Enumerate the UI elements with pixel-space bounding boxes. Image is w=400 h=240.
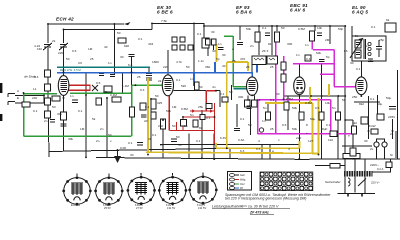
antenna jack upper — [8, 94, 44, 98]
svg-text:30: 30 — [276, 92, 280, 96]
svg-text:0.5: 0.5 — [96, 81, 101, 85]
wire yellow vert tube2 — [147, 78, 149, 152]
svg-text:240: 240 — [32, 96, 37, 100]
node J32 — [298, 158, 300, 160]
svg-text:Netzschalter: Netzschalter — [325, 180, 342, 184]
svg-text:0.1: 0.1 — [270, 98, 275, 102]
wire tube3 cathode down — [248, 96, 255, 136]
capacitor C19 — [61, 124, 67, 126]
svg-text:6.8: 6.8 — [128, 63, 133, 67]
wire contact leads — [208, 45, 284, 96]
resistor R39 — [305, 55, 311, 61]
svg-text:6 AQ 5: 6 AQ 5 — [352, 10, 368, 15]
wire vertical x163 — [162, 120, 164, 158]
svg-text:1n: 1n — [70, 94, 74, 98]
wire lamp leads — [377, 139, 385, 159]
svg-text:10k: 10k — [325, 101, 330, 105]
wire mains verticals — [338, 159, 376, 194]
svg-text:25: 25 — [160, 143, 164, 147]
resistor R10 — [255, 32, 260, 42]
node J8 — [193, 22, 195, 24]
node J7 — [151, 22, 153, 24]
jack circle — [259, 128, 263, 132]
wire vertical x396 — [395, 131, 397, 158]
svg-text:T: T — [348, 134, 350, 138]
svg-text:50: 50 — [108, 133, 112, 137]
node J12 — [276, 25, 278, 27]
svg-text:Geh: Geh — [240, 173, 245, 177]
svg-text:30k: 30k — [68, 137, 73, 141]
wire vertical x277 — [276, 26, 278, 31]
svg-text:1k2: 1k2 — [352, 121, 357, 125]
node J17 — [43, 95, 45, 97]
wire tube1 cathode down — [63, 95, 65, 151]
svg-text:5k: 5k — [355, 34, 359, 38]
svg-text:50: 50 — [117, 31, 121, 35]
node J26 — [201, 157, 203, 159]
svg-text:5n: 5n — [263, 106, 267, 110]
resistor R23 — [385, 23, 396, 32]
capacitor C16 — [146, 78, 152, 80]
wire cap leads — [148, 68, 150, 74]
wire power x368.5 — [368, 96, 370, 139]
svg-text:1.1n: 1.1n — [198, 59, 204, 63]
svg-text:0.1: 0.1 — [356, 67, 361, 71]
wire magenta vert d — [275, 100, 277, 134]
svg-text:30: 30 — [130, 153, 134, 157]
socket V1 — [62, 176, 91, 205]
resistor R41 — [140, 103, 146, 110]
wire tube5 anode up — [360, 61, 362, 77]
resistor R24 — [181, 120, 187, 127]
svg-text:30: 30 — [120, 55, 124, 59]
svg-text:1n: 1n — [305, 43, 309, 47]
svg-text:6k8: 6k8 — [124, 44, 129, 48]
node arrowhead rail1 — [124, 22, 131, 25]
resistor R25 — [193, 120, 198, 127]
svg-text:1k: 1k — [257, 98, 261, 102]
node J6 — [131, 71, 133, 73]
svg-text:0.1: 0.1 — [206, 116, 211, 120]
node J36 — [344, 95, 346, 97]
wire green tube1 stub — [24, 92, 132, 94]
svg-text:50p: 50p — [338, 27, 343, 31]
wire magenta horiz y131 — [258, 133, 353, 135]
svg-text:60: 60 — [199, 85, 203, 89]
svg-text:25: 25 — [232, 59, 236, 63]
resistor R38 — [330, 131, 337, 137]
resistor R7 — [151, 112, 156, 119]
wire tube4 anode up — [298, 64, 300, 78]
svg-text:131 5V: 131 5V — [198, 206, 206, 210]
capacitor C24 — [54, 65, 59, 67]
wire magenta horiz y104 — [258, 99, 331, 101]
wire magenta vert f — [333, 64, 335, 87]
wire yellow vert x329 — [328, 84, 330, 96]
resistor R17 — [284, 102, 289, 110]
wire vertical x321.7 — [321, 96, 323, 159]
wire red vert x206 — [205, 91, 207, 111]
svg-text:1M: 1M — [88, 47, 93, 51]
svg-text:30k: 30k — [103, 90, 108, 94]
node J3 — [63, 46, 65, 48]
capacitor C20 — [234, 129, 240, 131]
node J21 — [134, 84, 136, 86]
svg-text:Wdg: Wdg — [240, 178, 246, 182]
edge mark left lower — [0, 114, 2, 121]
wire vertical right x345 — [344, 26, 346, 159]
node J29 — [226, 147, 228, 149]
svg-text:ECH 42: ECH 42 — [56, 17, 74, 22]
wire yellow top horiz — [227, 61, 248, 63]
capacitor C5 — [265, 33, 270, 36]
svg-text:0.3A: 0.3A — [238, 138, 245, 142]
tube U3 — [247, 77, 258, 96]
node J25 — [182, 116, 184, 118]
svg-text:220: 220 — [58, 51, 63, 55]
node J14 — [329, 25, 331, 27]
wire vertical x272 — [271, 26, 273, 55]
svg-text:1n: 1n — [108, 61, 112, 65]
svg-text:5k: 5k — [92, 117, 96, 121]
wire vertical x237 — [236, 104, 238, 127]
capacitor C3 — [50, 120, 55, 123]
capacitor C25 — [141, 115, 147, 117]
svg-text:50: 50 — [52, 105, 56, 109]
wire tube1 anode up — [63, 48, 65, 75]
svg-text:5n: 5n — [332, 106, 336, 110]
capacitor C17 — [237, 43, 243, 45]
svg-text:131 5V: 131 5V — [167, 206, 175, 210]
resistor R32 — [266, 112, 271, 120]
resistor R13 — [202, 38, 209, 48]
svg-text:8µF: 8µF — [322, 127, 328, 131]
antenna jack lower — [8, 96, 44, 105]
coil L1 — [45, 70, 51, 77]
resistor R3 — [52, 96, 60, 101]
svg-text:50: 50 — [186, 65, 190, 69]
trimmer cross mark — [92, 85, 98, 91]
net teal — [57, 66, 150, 68]
svg-text:50µ: 50µ — [386, 96, 391, 100]
wire yellow heater vert a — [299, 141, 301, 148]
ground arrow — [114, 156, 121, 163]
svg-text:8k: 8k — [268, 42, 272, 46]
svg-text:0.5: 0.5 — [282, 123, 287, 127]
svg-text:40: 40 — [212, 49, 216, 53]
net yellow — [146, 44, 329, 153]
resistor R34 — [330, 164, 340, 169]
svg-text:Osz: Osz — [240, 182, 245, 186]
wire magenta tube5 grid — [334, 86, 356, 88]
svg-text:0.05: 0.05 — [120, 146, 126, 150]
node J34 — [321, 95, 323, 97]
svg-text:1n: 1n — [296, 53, 300, 57]
wire tube2 anode up — [167, 50, 169, 75]
svg-text:50µ: 50µ — [377, 102, 382, 106]
wire green stub top — [224, 35, 233, 37]
svg-text:1n: 1n — [262, 119, 266, 123]
wire vertical x262b — [230, 144, 270, 159]
wire red tube2 down — [168, 96, 170, 131]
svg-text:+: + — [306, 131, 308, 135]
svg-text:ECH 42: ECH 42 — [71, 203, 81, 207]
svg-text:0.1: 0.1 — [196, 139, 201, 143]
svg-text:0.1: 0.1 — [220, 92, 225, 96]
wire cathode bus right — [283, 95, 345, 97]
trimmer capacitor C1 — [43, 43, 52, 50]
svg-text:Si: Si — [390, 153, 393, 157]
tube U5 — [356, 77, 367, 95]
svg-text:1.1M: 1.1M — [122, 84, 129, 88]
svg-text:27 5V: 27 5V — [136, 206, 143, 210]
wire yellow vert x310 — [309, 87, 311, 103]
wire red vert x214 — [214, 103, 216, 144]
svg-text:127: 127 — [308, 139, 313, 143]
IF can windings — [254, 58, 275, 60]
contact block K1 — [206, 39, 211, 45]
wire vertical x204 — [203, 23, 205, 40]
wire blue riser — [252, 64, 257, 78]
wire yellow vert right — [318, 98, 320, 153]
node J20 — [106, 97, 108, 99]
rectifier box — [386, 162, 392, 168]
wire yellow stub x216 — [216, 44, 218, 62]
svg-text:50k: 50k — [246, 27, 251, 31]
svg-text:ca. 30 W bei 220 V: ca. 30 W bei 220 V — [248, 205, 279, 209]
svg-text:8k2: 8k2 — [359, 102, 364, 106]
wire vertical x131.5 — [131, 57, 133, 85]
wire magenta vert g — [311, 32, 313, 50]
svg-text:0.1: 0.1 — [33, 109, 38, 113]
svg-text:2k: 2k — [52, 39, 56, 43]
wire vertical right edge — [397, 70, 399, 160]
svg-text:0.1: 0.1 — [145, 105, 150, 109]
wire green junction2 — [130, 92, 132, 94]
switch contact — [358, 179, 366, 187]
svg-text:25: 25 — [270, 65, 274, 69]
resistor R19 — [319, 112, 324, 120]
node J33 — [310, 95, 312, 97]
wire yellow vert x312 — [312, 103, 314, 153]
node J43 — [117, 149, 119, 151]
wire vertical x114 — [113, 24, 115, 74]
dial lamp LP2 — [382, 142, 387, 147]
node J11 — [271, 25, 273, 27]
svg-text:ZF 473 kHz: ZF 473 kHz — [249, 211, 269, 215]
wire teal agc line — [57, 66, 150, 68]
resistor R40 — [96, 98, 102, 105]
svg-text:300: 300 — [238, 95, 243, 99]
svg-text:4n: 4n — [212, 85, 216, 89]
wire vertical x151 — [150, 99, 152, 152]
wire power y120 — [345, 119, 353, 121]
wire teal tube3 stub — [234, 88, 247, 90]
wire vertical x268 — [267, 104, 269, 112]
svg-text:470: 470 — [240, 57, 245, 61]
svg-text:6k: 6k — [386, 18, 390, 22]
wire power x353 — [352, 120, 354, 159]
wire red y117 — [183, 116, 215, 118]
legend box — [228, 172, 252, 191]
coil L2 — [45, 84, 51, 91]
svg-text:0.1: 0.1 — [370, 97, 375, 101]
wire top rail 1 — [48, 23, 124, 25]
node J16 — [23, 92, 25, 94]
wire vertical x122 — [122, 72, 124, 93]
wire red y130 — [169, 130, 214, 132]
svg-text:65: 65 — [247, 98, 251, 102]
svg-text:1n: 1n — [218, 42, 222, 46]
wire y146 bus — [342, 145, 372, 147]
svg-text:0.1: 0.1 — [262, 26, 267, 30]
resistor R36 — [361, 117, 368, 124]
svg-text:4.7k: 4.7k — [176, 60, 182, 64]
svg-text:8: 8 — [306, 123, 308, 127]
svg-text:10k: 10k — [317, 26, 322, 30]
resistor R14 — [245, 100, 251, 107]
svg-text:40: 40 — [222, 64, 226, 68]
svg-text:0.3: 0.3 — [306, 57, 311, 61]
node J22 — [150, 98, 152, 100]
svg-text:300: 300 — [287, 42, 292, 46]
node J15 — [344, 25, 346, 27]
svg-text:50: 50 — [66, 57, 70, 61]
resistor R8 — [161, 119, 166, 129]
wire yellow top stub — [247, 62, 249, 71]
svg-text:2n: 2n — [250, 44, 254, 48]
svg-text:a: a — [272, 149, 274, 153]
switch S1b — [180, 37, 185, 42]
svg-text:4: 4 — [288, 147, 290, 151]
socket V4 — [158, 176, 187, 205]
svg-text:6 BA 6: 6 BA 6 — [236, 10, 252, 15]
svg-text:250: 250 — [158, 124, 163, 128]
node J40 — [368, 130, 370, 132]
svg-text:4: 4 — [258, 139, 260, 143]
svg-text:110: 110 — [328, 138, 333, 142]
svg-text:0.1M: 0.1M — [110, 93, 117, 97]
svg-text:L7: L7 — [366, 44, 370, 48]
node J10 — [258, 25, 260, 27]
svg-text:2M: 2M — [325, 38, 330, 42]
svg-text:50: 50 — [342, 98, 346, 102]
svg-text:25: 25 — [137, 75, 141, 79]
svg-text:5p: 5p — [216, 57, 220, 61]
svg-text:1800: 1800 — [152, 60, 159, 64]
node J13 — [314, 25, 316, 27]
capacitor C11 — [129, 55, 135, 57]
svg-text:5n: 5n — [190, 113, 194, 117]
svg-text:0.1: 0.1 — [176, 78, 181, 82]
node J27 — [213, 158, 215, 160]
svg-text:0.1: 0.1 — [371, 25, 376, 29]
wire vertical x330 — [329, 26, 331, 44]
wire blue jog — [214, 62, 216, 72]
coil tuning arrow — [350, 38, 363, 58]
svg-text:L1: L1 — [33, 87, 37, 91]
wire vertical x188.9 — [188, 134, 190, 159]
capacitor C15 — [146, 74, 152, 76]
svg-text:0.1: 0.1 — [152, 133, 157, 137]
svg-text:6 BE 6: 6 BE 6 — [157, 10, 173, 15]
svg-text:2n: 2n — [370, 59, 374, 63]
svg-text:50: 50 — [178, 143, 182, 147]
wire tube5 cathode — [360, 95, 362, 97]
tube U4 — [294, 77, 305, 95]
svg-text:25: 25 — [90, 57, 94, 61]
wire green vert x231 — [232, 36, 234, 87]
svg-text:6 AV 6: 6 AV 6 — [290, 8, 305, 13]
net red — [62, 85, 216, 144]
terminal strip block — [260, 172, 313, 191]
svg-text:50: 50 — [229, 90, 233, 94]
net blue — [57, 62, 257, 86]
svg-text:360: 360 — [205, 65, 210, 69]
resistor R28 — [281, 62, 286, 70]
wire magenta vert e — [330, 100, 332, 134]
svg-text:7.5k: 7.5k — [161, 19, 167, 23]
resistor R9 — [118, 38, 126, 43]
svg-text:ZF: ZF — [240, 186, 244, 190]
wire vertical x231.5 — [231, 85, 233, 100]
resistor R5 — [130, 107, 135, 117]
wire vertical x214.2 — [213, 134, 215, 159]
svg-text:220: 220 — [163, 65, 168, 69]
wire yellow bottom rail — [146, 152, 319, 153]
legend row 4 — [229, 187, 234, 190]
node J30 — [251, 94, 253, 96]
wire vertical x301.5 — [298, 95, 300, 160]
svg-text:50µ: 50µ — [310, 117, 315, 121]
resistor R26 — [206, 104, 212, 109]
svg-text:0.1: 0.1 — [138, 37, 143, 41]
capacitor C7 — [247, 106, 252, 109]
wire power y102 — [354, 101, 380, 103]
connector strip outline — [260, 172, 313, 191]
svg-text:1n: 1n — [184, 124, 188, 128]
svg-text:2n: 2n — [44, 119, 48, 123]
node J18 — [63, 97, 65, 99]
svg-text:50k: 50k — [292, 127, 297, 131]
wire green vert left — [23, 93, 25, 136]
svg-text:0.5: 0.5 — [315, 106, 320, 110]
svg-text:6.3V: 6.3V — [220, 136, 227, 140]
wire vertical x259 — [258, 26, 260, 55]
tube U2 — [162, 75, 173, 96]
wire blue drop x194 — [193, 72, 195, 86]
svg-text:1M: 1M — [172, 105, 177, 109]
capacitor C13 — [99, 74, 104, 76]
svg-text:0.5M: 0.5M — [298, 27, 305, 31]
svg-text:20: 20 — [144, 119, 148, 123]
wire green junction — [134, 84, 136, 86]
svg-text:25: 25 — [270, 127, 274, 131]
resistor R4 — [104, 86, 112, 92]
wire vertical x201.8 — [201, 110, 203, 158]
svg-text:a: a — [232, 47, 234, 51]
resistor R30 — [61, 112, 67, 120]
svg-text:C6: C6 — [78, 61, 82, 65]
svg-text:50: 50 — [172, 124, 176, 128]
wire red vert x183 — [182, 117, 184, 131]
resistor R12 — [310, 31, 315, 41]
svg-text:2n: 2n — [96, 139, 100, 143]
switch S1d — [180, 45, 185, 50]
switch S1a — [172, 37, 177, 42]
wire vertical x288 — [287, 96, 289, 130]
svg-text:25p: 25p — [379, 38, 384, 42]
